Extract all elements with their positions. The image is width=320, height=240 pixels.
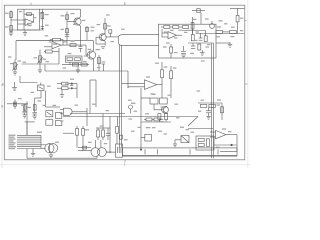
svg-text:1: 1: [124, 2, 126, 6]
svg-text:1: 1: [124, 163, 126, 167]
svg-text:B: B: [1, 105, 3, 109]
